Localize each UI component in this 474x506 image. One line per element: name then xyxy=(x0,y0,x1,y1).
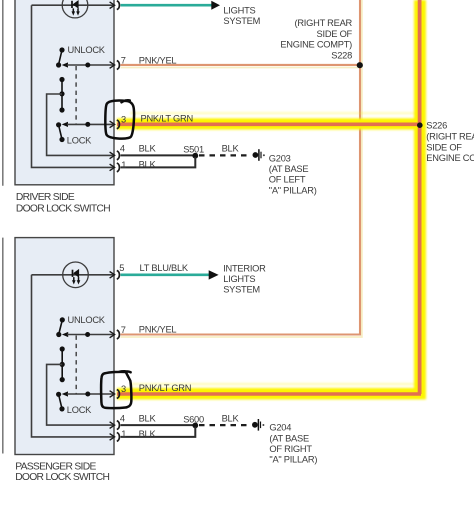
ground G203 symbol xyxy=(253,149,265,161)
hand-drawn annotation circle (passenger pin3) xyxy=(101,371,131,408)
svg-text:DOOR LOCK SWITCH: DOOR LOCK SWITCH xyxy=(15,472,109,483)
svg-text:BLK: BLK xyxy=(139,429,157,439)
pin chevron+socket driver pin1 xyxy=(110,163,120,172)
label S226 block xyxy=(426,121,474,164)
svg-text:INTERIOR: INTERIOR xyxy=(223,263,266,273)
svg-text:5: 5 xyxy=(119,263,124,273)
svg-text:DRIVER SIDE: DRIVER SIDE xyxy=(16,192,75,203)
LOCK pivot and arm (passenger) xyxy=(56,392,61,397)
svg-text:7: 7 xyxy=(121,56,126,66)
common feed wire to pin4 (passenger) xyxy=(47,364,114,425)
svg-text:OF LEFT: OF LEFT xyxy=(269,175,306,185)
pin7 contact line with left arrow (driver) xyxy=(62,62,68,67)
svg-text:ENGINE COMPT): ENGINE COMPT) xyxy=(426,153,474,163)
splice S600 xyxy=(192,423,198,429)
LED circle (passenger) xyxy=(63,262,89,288)
svg-text:PNK/LT GRN: PNK/LT GRN xyxy=(141,114,193,124)
wire PNK/YEL passenger pin7 + vertical riser to S228 xyxy=(121,0,362,337)
svg-text:3: 3 xyxy=(121,114,126,124)
mechanical link (dashed, passenger) xyxy=(75,336,77,395)
svg-text:BLK: BLK xyxy=(139,160,157,170)
svg-text:7: 7 xyxy=(121,325,126,335)
svg-text:(AT BASE: (AT BASE xyxy=(269,433,309,443)
svg-text:UNLOCK: UNLOCK xyxy=(68,315,106,325)
svg-text:4: 4 xyxy=(120,144,125,154)
svg-text:SYSTEM: SYSTEM xyxy=(223,16,260,26)
splice S226 xyxy=(417,122,423,128)
svg-text:(RIGHT REAR: (RIGHT REAR xyxy=(426,132,474,142)
LED diode (passenger) xyxy=(72,269,80,285)
svg-text:LOCK: LOCK xyxy=(67,405,92,415)
pin3 contact line with left arrow (passenger) xyxy=(62,391,68,396)
svg-text:S228: S228 xyxy=(331,50,352,60)
driver side door lock switch box xyxy=(15,0,114,185)
svg-text:G203: G203 xyxy=(269,153,291,163)
wire lamp return: down left side to pin1 xyxy=(32,275,115,437)
ground G204 symbol xyxy=(252,419,264,431)
svg-text:DOOR LOCK SWITCH: DOOR LOCK SWITCH xyxy=(16,204,110,215)
switch arm unlock (passenger) xyxy=(59,320,63,334)
label G203 block xyxy=(269,153,317,195)
svg-text:SYSTEM: SYSTEM xyxy=(223,285,260,295)
UNLOCK contact (driver) xyxy=(59,47,64,52)
svg-text:PNK/YEL: PNK/YEL xyxy=(139,325,177,335)
wire lamp feed: pin5 line across box xyxy=(32,274,115,276)
label S228 block xyxy=(280,18,352,60)
svg-text:UNLOCK: UNLOCK xyxy=(68,45,106,55)
pin chevron+socket driver pin3 xyxy=(110,120,120,129)
wire BLK passenger pin1 xyxy=(121,427,196,437)
svg-text:PNK/LT GRN: PNK/LT GRN xyxy=(139,383,191,393)
pin chevron+socket passenger pin4 xyxy=(110,421,120,430)
LED diode (driver) xyxy=(72,0,80,16)
pin chevron+socket passenger pin7 xyxy=(110,330,120,339)
svg-text:"A" PILLAR): "A" PILLAR) xyxy=(269,455,317,465)
svg-text:BLK: BLK xyxy=(139,413,157,423)
LOCK pivot and arm (driver) xyxy=(56,122,61,127)
svg-text:BLK: BLK xyxy=(139,144,157,154)
svg-text:SIDE OF: SIDE OF xyxy=(317,29,353,39)
wire BLK driver pin1 xyxy=(121,157,196,167)
UNLOCK contact (passenger) xyxy=(60,317,65,322)
pin chevron+socket passenger pin1 xyxy=(110,433,120,442)
svg-text:3: 3 xyxy=(121,384,126,394)
svg-text:LOCK: LOCK xyxy=(67,135,92,145)
wire PNK/LT GRN vertical run xyxy=(418,0,422,394)
switch arm unlock (driver) xyxy=(59,50,62,65)
dashed BLK wire to G204 xyxy=(199,424,251,426)
svg-text:LT BLU/BLK: LT BLU/BLK xyxy=(140,263,189,273)
svg-text:(AT BASE: (AT BASE xyxy=(269,164,309,174)
wire BLK passenger pin4 xyxy=(121,424,196,426)
LED circle (driver, cut at top) xyxy=(62,0,88,18)
common contact chain (passenger) xyxy=(60,346,65,382)
wire lamp return: down left side to pin1 xyxy=(32,5,115,167)
svg-text:(RIGHT REAR: (RIGHT REAR xyxy=(294,18,352,28)
svg-text:S501: S501 xyxy=(183,145,204,155)
svg-text:S226: S226 xyxy=(426,121,447,131)
pin7 contact line with left arrow (passenger) xyxy=(62,332,68,337)
wire PNK/LT GRN driver pin3 (highlighted) xyxy=(117,123,421,127)
svg-text:1: 1 xyxy=(121,429,126,439)
wire PNK/LT GRN passenger pin3 (highlighted) xyxy=(117,392,421,396)
common contact chain (driver) xyxy=(59,77,64,113)
svg-text:1: 1 xyxy=(121,160,126,170)
svg-text:SIDE OF: SIDE OF xyxy=(426,143,462,153)
wire LT BLU/BLK passenger pin5 xyxy=(121,273,210,276)
svg-text:PASSENGER SIDE: PASSENGER SIDE xyxy=(15,461,96,472)
wire PNK/YEL driver pin7 xyxy=(121,64,361,66)
hand-drawn annotation circle (driver pin3) xyxy=(105,100,134,138)
label G204 block xyxy=(269,423,317,465)
svg-text:4: 4 xyxy=(120,413,125,423)
svg-text:BLK: BLK xyxy=(222,144,240,154)
passenger side door lock switch box xyxy=(15,238,114,455)
svg-text:OF RIGHT: OF RIGHT xyxy=(269,444,312,454)
svg-text:ENGINE COMPT): ENGINE COMPT) xyxy=(280,40,352,50)
pin chevron+socket driver pin4 xyxy=(110,151,120,160)
wire BLK driver pin4 xyxy=(121,154,196,156)
pin chevron+socket passenger pin3 xyxy=(110,390,120,399)
pin chevron+socket driver pin5 xyxy=(110,1,120,10)
dashed BLK wire to G203 xyxy=(199,154,251,156)
common feed wire to pin4 (driver) xyxy=(47,94,114,155)
wire LT BLU/BLK driver pin5 xyxy=(121,4,213,7)
svg-text:S600: S600 xyxy=(183,414,204,424)
svg-text:"A" PILLAR): "A" PILLAR) xyxy=(269,185,317,195)
pin chevron+socket passenger pin5 xyxy=(110,270,120,279)
svg-text:LIGHTS: LIGHTS xyxy=(223,274,255,284)
cut-off neighbour box edge (left, passenger) xyxy=(2,238,4,454)
pin3 contact line with left arrow (driver) xyxy=(62,122,68,127)
pin chevron+socket driver pin7 xyxy=(110,61,120,70)
svg-text:LIGHTS: LIGHTS xyxy=(223,5,255,15)
highlighter band vertical (PNK/LT GRN run to S226) xyxy=(117,0,426,400)
mechanical link (dashed, driver) xyxy=(75,66,77,124)
arrow to interior lights system (passenger) xyxy=(209,270,219,279)
cut-off neighbour box edge (left, driver) xyxy=(2,0,4,186)
label interior lights system (passenger) xyxy=(223,263,266,294)
svg-text:BLK: BLK xyxy=(222,413,240,423)
svg-text:PNK/YEL: PNK/YEL xyxy=(139,56,177,66)
svg-text:G204: G204 xyxy=(269,423,291,433)
arrow to lights system (driver) xyxy=(211,1,220,10)
splice S501 xyxy=(192,153,198,159)
splice S228 xyxy=(357,62,363,68)
wire lamp feed: pin5 line across box xyxy=(32,4,115,6)
